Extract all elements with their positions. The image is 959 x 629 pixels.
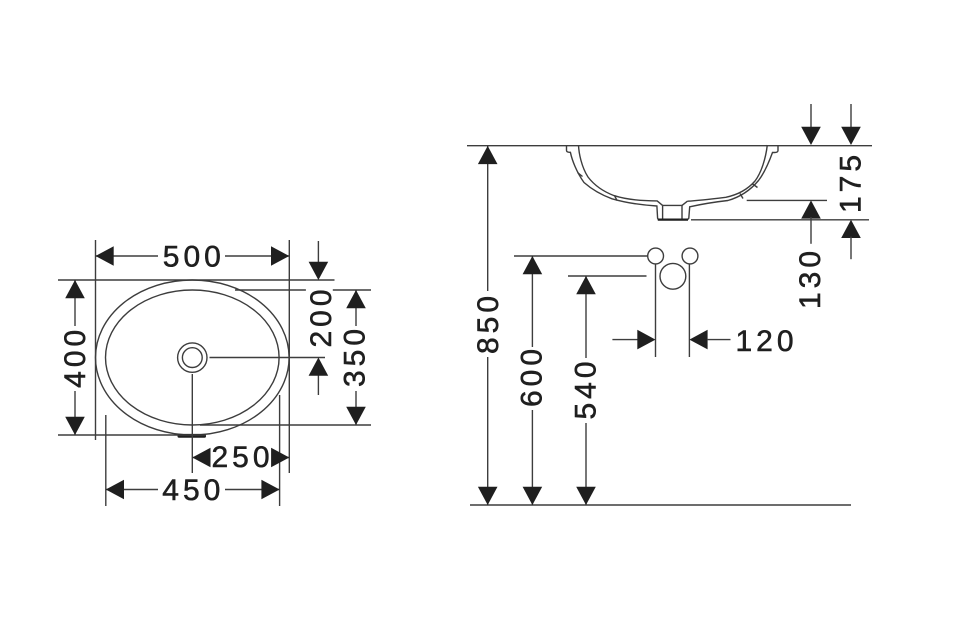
svg-text:350: 350 bbox=[338, 325, 371, 387]
dimension 400 top arrow bbox=[65, 280, 85, 298]
dimension 200 upper shaft and arrow bbox=[317, 241, 319, 263]
drain flare bottom bbox=[663, 204, 682, 206]
dimension 120 left shaft and arrow bbox=[612, 339, 639, 341]
dimension 500 left arrow bbox=[96, 246, 114, 266]
dimension 450 left arrow bbox=[106, 480, 124, 500]
dimension 250 right arrow bbox=[271, 448, 289, 468]
drain pipe right wall bbox=[681, 205, 683, 219]
glaze tick right lower bbox=[740, 194, 743, 199]
svg-text:400: 400 bbox=[59, 326, 92, 388]
dimension 400 bottom arrow bbox=[65, 417, 85, 435]
faucet hole right bbox=[682, 248, 698, 264]
svg-text:200: 200 bbox=[305, 285, 338, 347]
countertop line bbox=[467, 145, 872, 147]
dimension 120 right shaft and arrow bbox=[689, 330, 707, 350]
overflow slot bar bbox=[178, 434, 207, 438]
dimension 500 right arrow bbox=[271, 246, 289, 266]
ref line 600 level bbox=[514, 255, 648, 257]
drain flare right slant bbox=[682, 201, 687, 205]
inner bottom tangent extension line bbox=[200, 424, 371, 426]
dimension 540 line bbox=[585, 276, 587, 358]
dimension 450 line bbox=[106, 489, 158, 491]
basin outer contour bbox=[567, 145, 779, 220]
ref line 130 level bbox=[747, 199, 827, 201]
svg-text:175: 175 bbox=[835, 151, 868, 213]
bottom tangent extension line bbox=[58, 434, 206, 436]
faucet hole center big bbox=[660, 263, 686, 289]
dimension 175 bottom arrow and shaft bbox=[841, 220, 861, 238]
dimension 600 line bbox=[531, 256, 533, 347]
dimension 600 bottom arrow bbox=[523, 487, 543, 505]
dimension 400 line bbox=[74, 280, 76, 326]
dimension 500 line bbox=[96, 255, 159, 257]
inner bowl ellipse bbox=[106, 290, 280, 425]
ref line 175 level bbox=[691, 219, 869, 221]
dimension 450 right arrow bbox=[261, 480, 279, 500]
dimension 130 top shaft and arrow bbox=[810, 104, 812, 129]
svg-text:500: 500 bbox=[163, 241, 225, 274]
inner-left vertical extension bbox=[105, 415, 107, 506]
dimension 850 bottom arrow bbox=[478, 487, 498, 505]
dimension 200 lower shaft and arrow bbox=[317, 375, 319, 396]
dimension 850 top arrow bbox=[478, 146, 498, 164]
drain bottom line bbox=[658, 219, 688, 221]
dimension 350 bottom arrow bbox=[346, 407, 366, 425]
dimension 130 bottom arrow and shaft bbox=[801, 200, 821, 218]
svg-text:450: 450 bbox=[162, 474, 224, 507]
dimension 120 left extension line bbox=[655, 265, 657, 358]
centerline horizontal from drain bbox=[210, 357, 326, 359]
dimension 600 top arrow bbox=[523, 256, 543, 274]
dimension 540 bottom arrow bbox=[576, 487, 596, 505]
dimension 850 line bbox=[487, 146, 489, 291]
dimension 120 right extension line bbox=[688, 265, 690, 358]
dimension 350 line bbox=[355, 290, 357, 326]
ref line 540 level bbox=[568, 275, 647, 277]
dimension 250 left arrow bbox=[192, 448, 210, 468]
floor line bbox=[470, 504, 851, 506]
right tangent vertical extension bbox=[288, 240, 290, 473]
svg-text:850: 850 bbox=[472, 292, 505, 354]
drain inner circle bbox=[182, 348, 202, 368]
drain pipe left wall bbox=[662, 205, 664, 219]
dimension 350 top arrow bbox=[346, 290, 366, 308]
centerline vertical from drain bbox=[191, 374, 193, 473]
dimension 175 top shaft and arrow bbox=[850, 104, 852, 129]
svg-text:130: 130 bbox=[794, 247, 827, 309]
inner top tangent extension line bbox=[235, 289, 306, 291]
svg-text:250: 250 bbox=[211, 441, 273, 474]
top tangent extension line bbox=[58, 279, 335, 281]
svg-text:120: 120 bbox=[735, 325, 797, 358]
glaze tick left lower bbox=[615, 196, 618, 201]
inner-right vertical extension bbox=[279, 395, 281, 506]
basin inner contour left bbox=[579, 145, 663, 205]
dimension 250 line bbox=[192, 457, 208, 459]
glaze tick right upper bbox=[752, 184, 758, 188]
svg-text:540: 540 bbox=[570, 357, 603, 419]
drain outer circle bbox=[178, 343, 207, 372]
outer rim ellipse bbox=[96, 280, 290, 435]
glaze tick left upper bbox=[578, 173, 583, 177]
faucet hole left bbox=[648, 248, 664, 264]
dimension 540 top arrow bbox=[576, 276, 596, 294]
svg-text:600: 600 bbox=[516, 345, 549, 407]
basin inner contour right bbox=[687, 145, 767, 201]
left tangent vertical extension bbox=[95, 240, 97, 440]
